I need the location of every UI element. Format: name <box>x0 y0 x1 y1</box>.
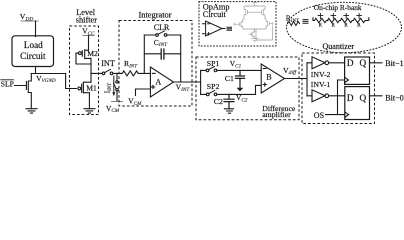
svg-text:C2: C2 <box>214 97 223 106</box>
svg-text:Load: Load <box>24 40 43 50</box>
svg-text:Bit−0: Bit−0 <box>385 93 403 102</box>
svg-text:SLP: SLP <box>1 80 14 89</box>
svg-text:Quantizer: Quantizer <box>323 42 355 51</box>
svg-text:CLR: CLR <box>154 23 170 32</box>
svg-text:Circuit: Circuit <box>20 51 46 61</box>
svg-text:VCM: VCM <box>128 96 142 106</box>
svg-text:VDD: VDD <box>20 12 34 23</box>
svg-text:amplifier: amplifier <box>262 110 291 119</box>
svg-text:D: D <box>347 93 354 103</box>
svg-text:M2: M2 <box>87 49 98 58</box>
svg-text:Q: Q <box>360 93 367 103</box>
svg-text:shifter: shifter <box>76 15 97 24</box>
svg-text:B: B <box>266 73 272 82</box>
svg-text:VINT: VINT <box>176 82 191 92</box>
svg-text:OS: OS <box>314 111 324 120</box>
svg-text:VCC: VCC <box>82 27 95 37</box>
svg-text:IINT: IINT <box>104 82 113 93</box>
svg-text:R: R <box>332 23 336 28</box>
svg-text:RINT: RINT <box>286 13 300 23</box>
svg-text:R: R <box>357 23 361 28</box>
svg-text:Integrator: Integrator <box>139 10 172 19</box>
svg-text:INV-2: INV-2 <box>311 70 331 79</box>
svg-text:SP2: SP2 <box>207 82 220 91</box>
svg-text:D: D <box>347 58 354 68</box>
svg-text:RINT: RINT <box>124 59 138 69</box>
svg-text:R: R <box>319 23 323 28</box>
svg-text:VVGND: VVGND <box>36 74 56 84</box>
svg-text:INT: INT <box>101 59 115 68</box>
svg-text:SP1: SP1 <box>207 59 220 68</box>
svg-text:CINT: CINT <box>154 38 168 48</box>
svg-text:Bit−1: Bit−1 <box>385 59 403 68</box>
svg-text:INV-1: INV-1 <box>311 80 331 89</box>
svg-text:R: R <box>344 23 348 28</box>
svg-text:VC1: VC1 <box>230 59 242 69</box>
svg-text:C1: C1 <box>225 74 234 83</box>
svg-text:A: A <box>155 78 161 87</box>
svg-text:On-chip R-bank: On-chip R-bank <box>314 3 362 12</box>
svg-text:VCM: VCM <box>106 104 120 114</box>
svg-text:M1: M1 <box>86 83 97 92</box>
svg-text:Circuit: Circuit <box>203 10 227 19</box>
svg-text:Q: Q <box>360 58 367 68</box>
svg-text:Vdiff: Vdiff <box>283 66 298 76</box>
